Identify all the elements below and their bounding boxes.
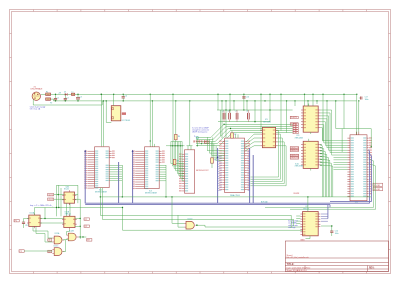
- capacitor C12: [22, 222, 25, 223]
- wire +5V rail: [51, 93, 357, 95]
- IC1 lower right pins: [106, 165, 123, 181]
- wire osc to FF2 a: [66, 203, 68, 216]
- svg-text:C5: C5: [222, 111, 224, 113]
- gate IC12A: [54, 236, 62, 244]
- svg-text:P2: P2: [20, 251, 22, 253]
- svg-text:JP-CN2: JP-CN2: [374, 189, 381, 191]
- capacitor C17: [361, 97, 362, 100]
- wire long y=215.3: [100, 188, 291, 216]
- connector SV1: [347, 135, 368, 201]
- svg-text:SG-51: SG-51: [64, 189, 69, 191]
- wire caps top rail y=110: [217, 109, 293, 111]
- flags left of IC9: [290, 116, 298, 119]
- svg-text:D1: D1: [64, 91, 66, 93]
- capacitor C4: [122, 97, 125, 98]
- SV1 left wires lower: [334, 156, 348, 158]
- Z80 top stub a: [235, 134, 237, 138]
- svg-text:A1: A1: [48, 250, 50, 253]
- IC9 bottom stub: [310, 132, 312, 134]
- capacitor C14: [330, 231, 333, 232]
- svg-text:F1: F1: [46, 91, 48, 93]
- IC9 bus driver: [301, 106, 320, 132]
- svg-text:C2: C2: [67, 97, 69, 99]
- wire osc to FF2 b: [69, 203, 71, 216]
- IC10 bottom stub: [310, 168, 312, 170]
- wire IC7 left b: [293, 220, 295, 227]
- FF wiring: [24, 218, 29, 220]
- svg-text:74HC245N: 74HC245N: [295, 138, 304, 140]
- IC1 latch: [84, 147, 114, 189]
- svg-text:REV:: REV:: [369, 267, 375, 269]
- junction dots on rails: [101, 94, 102, 95]
- svg-text:74HC373N: 74HC373N: [295, 166, 304, 168]
- bus vertical IC3: [132, 151, 134, 204]
- svg-text:M74HC574B1R: M74HC574B1R: [95, 192, 108, 194]
- flipflop IC11A: [29, 215, 40, 226]
- wire supply drop: [196, 139, 198, 146]
- wire to regulator gnd: [106, 101, 111, 123]
- bus vertical IC6 right a: [249, 148, 251, 203]
- svg-text:freq -> /2 -> 2MHz CPU clk _: freq -> /2 -> 2MHz CPU clk _: [30, 204, 54, 207]
- svg-text:Time:: Time:: [306, 268, 311, 270]
- svg-text:IC12C: IC12C: [54, 245, 60, 247]
- diode D1: [65, 93, 67, 95]
- bus horizontal b: [85, 204, 330, 206]
- IC3 lower right pins: [156, 165, 166, 182]
- wire h 207.5: [35, 207, 123, 209]
- svg-text:P1: P1: [15, 220, 17, 222]
- svg-text:File: z80_kbd_controller.sch: File: z80_kbd_controller.sch: [287, 256, 309, 259]
- svg-text:74HC74: 74HC74: [65, 214, 71, 216]
- wire C17 stub: [359, 97, 360, 99]
- wire to FF1 top: [34, 208, 36, 216]
- resistor R1: [211, 158, 214, 163]
- wire F2 out: [51, 98, 54, 100]
- svg-text:CLK2: CLK2: [48, 199, 53, 201]
- diagonal fan IC10 to bundle: [320, 145, 322, 197]
- svg-text:BUS_AD: BUS_AD: [261, 200, 269, 203]
- wire P2 to gate: [24, 250, 52, 252]
- svg-text:TITLE:: TITLE:: [287, 263, 295, 266]
- bus riser SV1 b: [369, 153, 372, 202]
- wire drop 172: [171, 197, 173, 223]
- wire FF2 right down: [79, 219, 81, 239]
- gate IC12C: [54, 248, 62, 256]
- flags for fan wires: [293, 123, 298, 126]
- svg-text:C6: C6: [227, 111, 229, 113]
- wire drop right end: [356, 94, 358, 135]
- gate IC12D: [186, 221, 194, 229]
- flag CLK2: [48, 198, 54, 201]
- svg-text:PORT2: PORT2: [291, 124, 297, 126]
- svg-text:Sheet: 1/1 EAGLE 6.5.0: Sheet: 1/1 EAGLE 6.5.0: [287, 269, 307, 272]
- svg-text:100n: 100n: [335, 233, 339, 235]
- svg-text:PB4: PB4: [294, 132, 298, 134]
- svg-text:C4: C4: [125, 96, 127, 98]
- svg-text:DATA150: DATA150: [291, 149, 299, 152]
- wire long y=230.2: [123, 229, 303, 231]
- flags left of IC10: [290, 146, 299, 149]
- wire long y=219.5: [103, 188, 294, 220]
- svg-text:R4: R4: [178, 136, 180, 138]
- svg-text:L1: L1: [72, 91, 74, 93]
- wire drop x=100.1: [100, 94, 102, 146]
- svg-text:R2: R2: [234, 134, 236, 136]
- SV1 top pin stub: [358, 132, 360, 135]
- bus riser SV1: [369, 150, 370, 204]
- svg-text:Date: 12.03.2015 19:22: Date: 12.03.2015 19:22: [287, 267, 307, 270]
- IC3 top pin marks: [194, 140, 208, 143]
- wire gate B out: [79, 236, 86, 238]
- wire connector return loop: [33, 100, 102, 106]
- svg-text:R3: R3: [177, 161, 179, 163]
- wire drop IC1 gnd: [102, 101, 104, 146]
- bus stub: [329, 205, 331, 208]
- svg-text:CLK1: CLK1: [48, 194, 53, 196]
- wire IC1 right drop: [121, 165, 123, 197]
- wire y=145.8: [166, 145, 185, 147]
- capacitor C16: [242, 97, 245, 98]
- svg-text:PORT1: PORT1: [291, 117, 297, 119]
- svg-text:DATA158: DATA158: [291, 157, 299, 160]
- capacitor C3 electrolytic: [76, 98, 80, 99]
- IC4 ROM: [179, 150, 195, 193]
- SV1 top pin stub2: [355, 132, 357, 135]
- svg-text:C1: C1: [57, 97, 59, 99]
- bus vertical mid: [118, 162, 120, 203]
- wire FF to gate A2: [36, 226, 52, 242]
- wire FF to gate A: [33, 226, 52, 238]
- fan corner verticals to Z80: [207, 137, 224, 150]
- wire green riser b: [290, 164, 376, 210]
- svg-text:P+: P+: [194, 136, 196, 138]
- fuse F2: [46, 98, 51, 100]
- wires IC5 right: [277, 129, 280, 131]
- wire IC7 top stub: [307, 197, 309, 212]
- svg-text:IC2 78L05: IC2 78L05: [122, 120, 130, 122]
- capacitor C2: [64, 99, 67, 100]
- gate IC12B: [68, 233, 76, 241]
- IC6 Z80: [219, 138, 250, 193]
- wire X1 to F1: [41, 93, 46, 95]
- svg-text:addr logic: addr logic: [288, 226, 295, 229]
- bus vertical IC1: [84, 151, 86, 204]
- wire drops from rails: [149, 94, 151, 147]
- SV1 labels columns: [351, 137, 372, 196]
- flipflop IC11B: [64, 216, 75, 227]
- wire GND rail: [54, 100, 357, 102]
- flag CLK1: [48, 193, 54, 196]
- svg-text:RD/WR: RD/WR: [294, 193, 300, 195]
- svg-text:C12: C12: [25, 225, 28, 227]
- svg-text:F2: F2: [50, 103, 52, 105]
- svg-text:74HC00N: 74HC00N: [263, 121, 272, 123]
- svg-text:Q1: Q1: [85, 219, 88, 221]
- svg-text:C7: C7: [235, 111, 237, 113]
- wire drop right end 2: [358, 101, 360, 136]
- svg-text:IC12B: IC12B: [69, 231, 75, 233]
- svg-text:100n: 100n: [365, 99, 369, 101]
- wire drop x=102.2: [101, 101, 103, 105]
- wire IC7 left a: [290, 215, 292, 228]
- svg-text:DS1210: DS1210: [303, 208, 309, 210]
- supply symbol mid: [196, 136, 198, 138]
- wire green box top: [336, 128, 371, 130]
- wire long y=227: [205, 226, 303, 228]
- svg-text:AT28C64-15PC: AT28C64-15PC: [196, 169, 209, 172]
- IC9 top stub: [308, 104, 310, 107]
- svg-text:C8: C8: [246, 111, 248, 113]
- wire gate A out: [63, 238, 69, 241]
- svg-text:Q2: Q2: [85, 226, 88, 228]
- wire FF2 bottom to gate: [67, 229, 70, 235]
- bus drop IC7: [327, 205, 329, 219]
- wire drop x=335.8: [335, 101, 337, 129]
- svg-text:JP-CN1: JP-CN1: [374, 185, 381, 187]
- bus vertical IC6 right b: [252, 155, 254, 203]
- capacitor row C5-C8: [223, 113, 225, 120]
- Z80 bus diagonal jogs: [218, 151, 250, 191]
- svg-text:C3: C3: [80, 97, 82, 99]
- wire osc right down: [77, 185, 79, 203]
- wire green box right: [370, 129, 372, 147]
- IC7 controller: [300, 212, 320, 236]
- svg-text:M74HC574B1R: M74HC574B1R: [145, 193, 158, 195]
- IC10 latch: [301, 141, 320, 168]
- resistor R2 above Z80: [231, 133, 234, 138]
- bus horizontal a: [85, 202, 369, 204]
- wire long y=196.9: [100, 196, 371, 198]
- svg-text:DATA155: DATA155: [291, 154, 299, 157]
- capacitor C1: [54, 99, 57, 100]
- wire drop to regulator top: [113, 94, 115, 105]
- svg-text:A0: A0: [48, 239, 50, 242]
- wire drop 122.5: [122, 208, 124, 231]
- wire drop to R1: [212, 137, 214, 152]
- wire green riser a: [265, 159, 374, 208]
- caps bottom bus: [218, 121, 270, 123]
- svg-text:IC11A: IC11A: [30, 212, 35, 215]
- bus horizontal c: [330, 201, 371, 203]
- svg-text:IC12A: IC12A: [55, 232, 61, 235]
- wires IC5 left diagonals: [246, 134, 260, 142]
- svg-text:DATA147: DATA147: [291, 146, 299, 149]
- voltage regulator IC2: [111, 106, 121, 121]
- flag RES: [204, 141, 209, 144]
- IC3 latch: [132, 147, 165, 189]
- wire fan diagonals mid: [196, 124, 293, 137]
- label regulator: [122, 112, 126, 115]
- IC top stubs: [187, 146, 189, 150]
- wire IC3 right drop: [165, 165, 167, 197]
- inductor L1: [72, 93, 75, 95]
- IC5 74HC00: [260, 127, 278, 147]
- fuse F1: [46, 93, 51, 95]
- IC9 right staircase wires: [320, 110, 347, 155]
- SV1 right big flags: [373, 183, 383, 187]
- svg-text:5V / max 1A: 5V / max 1A: [30, 108, 41, 111]
- bus vertical IC6 left: [217, 148, 219, 203]
- wire green box left: [341, 129, 343, 152]
- svg-text:C16: C16: [246, 96, 249, 98]
- wire bundle top link: [171, 141, 182, 143]
- title block: [285, 241, 388, 272]
- IC10 top stub: [308, 139, 310, 142]
- oscillator QG1: [64, 192, 75, 203]
- svg-text:GND: GND: [300, 240, 305, 242]
- svg-text:28DIP skinny pano: 28DIP skinny pano: [192, 132, 207, 134]
- svg-text:DIN5-FEMALE: DIN5-FEMALE: [31, 88, 44, 91]
- connector X1 DIN: [32, 92, 40, 100]
- Z80 top stub b: [237, 134, 239, 138]
- resistor R3 in bundle: [173, 159, 176, 164]
